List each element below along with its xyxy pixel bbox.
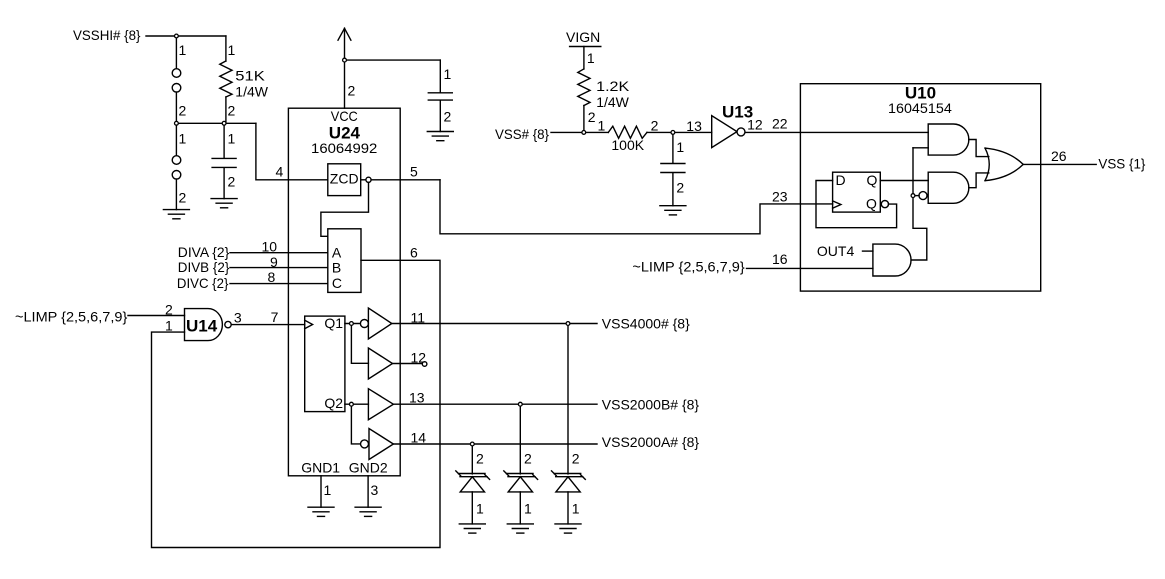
svg-text:1/4W: 1/4W bbox=[235, 84, 268, 100]
wire Q2 to buffer4 bbox=[351, 404, 360, 444]
junction at Q1 output bbox=[350, 322, 354, 326]
svg-text:VSS2000B# {8}: VSS2000B# {8} bbox=[602, 396, 700, 412]
wire J2 top lead bbox=[175, 123, 177, 155]
svg-text:OUT4: OUT4 bbox=[817, 243, 855, 259]
svg-text:Q: Q bbox=[867, 172, 878, 188]
ZCD block inside U24 bbox=[328, 164, 361, 196]
junction VSS# R2 bbox=[582, 131, 586, 135]
Q1Q2 clock triangle bbox=[305, 320, 313, 329]
junction pin13 zener2 bbox=[518, 402, 522, 406]
wire pin 14 net bbox=[393, 443, 597, 445]
svg-text:3: 3 bbox=[371, 482, 379, 498]
junction at Q2 output bbox=[350, 402, 354, 406]
svg-text:26: 26 bbox=[1051, 148, 1067, 164]
svg-text:VCC: VCC bbox=[331, 108, 358, 124]
wire ~LIMP to AND3 pin 16 bbox=[747, 267, 873, 269]
svg-text:2: 2 bbox=[228, 103, 236, 119]
and gate A1 top bbox=[928, 124, 969, 155]
junction at VCC arrow bbox=[343, 58, 347, 62]
DFF Qbar bubble bbox=[881, 201, 888, 208]
svg-text:1: 1 bbox=[228, 131, 236, 147]
svg-text:51K: 51K bbox=[235, 68, 265, 84]
wire pin 12 stub bbox=[393, 363, 423, 365]
svg-text:1: 1 bbox=[179, 131, 187, 147]
svg-text:1: 1 bbox=[572, 501, 580, 517]
svg-text:ZCD: ZCD bbox=[330, 171, 359, 187]
svg-text:A: A bbox=[332, 245, 342, 261]
svg-text:1.2K: 1.2K bbox=[596, 78, 630, 94]
wire DFF Q to AND2 bbox=[880, 180, 928, 182]
svg-text:1: 1 bbox=[524, 501, 532, 517]
connector J1 circle A bbox=[172, 69, 181, 78]
junction R3 C3 bbox=[671, 131, 675, 135]
IC U24 body bbox=[288, 108, 400, 476]
svg-text:1: 1 bbox=[324, 482, 332, 498]
svg-text:2: 2 bbox=[676, 180, 684, 196]
svg-text:9: 9 bbox=[270, 254, 278, 270]
junction node mid-left bbox=[175, 121, 179, 125]
svg-text:~LIMP {2,5,6,7,9}: ~LIMP {2,5,6,7,9} bbox=[15, 309, 128, 325]
wire U14 output to Q1 clock pin 7 bbox=[231, 324, 305, 326]
wire OUT4 branch vertical bbox=[911, 148, 927, 260]
ground below C3 bbox=[660, 206, 686, 215]
svg-text:U14: U14 bbox=[186, 317, 218, 336]
svg-text:1: 1 bbox=[179, 42, 187, 58]
zener diode D2 bbox=[504, 404, 538, 524]
svg-text:23: 23 bbox=[772, 189, 788, 205]
svg-text:4: 4 bbox=[276, 164, 284, 180]
wire ZCD feedback to divider block bbox=[321, 182, 369, 236]
svg-text:B: B bbox=[332, 260, 341, 276]
svg-text:2: 2 bbox=[165, 302, 173, 318]
svg-text:10: 10 bbox=[262, 238, 278, 254]
wire AND2 output to OR bbox=[969, 173, 989, 188]
capacitor C3 bbox=[661, 132, 685, 205]
buffer B3 triangle bbox=[368, 389, 393, 420]
and gate A2 middle bbox=[928, 172, 969, 203]
svg-text:13: 13 bbox=[686, 118, 702, 134]
wire AND2 bubble stub bbox=[913, 195, 919, 197]
svg-text:DIVB {2}: DIVB {2} bbox=[178, 259, 230, 275]
divider block ABC bbox=[328, 229, 361, 293]
svg-text:16045154: 16045154 bbox=[888, 100, 952, 116]
wire pin 11 net bbox=[392, 323, 597, 325]
connector J2 circle B bbox=[172, 171, 181, 180]
svg-text:VSS4000# {8}: VSS4000# {8} bbox=[602, 315, 690, 331]
connector J2 circle A bbox=[172, 156, 181, 165]
buffer B4 input bubble bbox=[361, 440, 369, 448]
wire J1 top lead bbox=[175, 36, 177, 69]
svg-text:2: 2 bbox=[588, 109, 596, 125]
svg-text:2: 2 bbox=[524, 451, 532, 467]
svg-text:1/4W: 1/4W bbox=[596, 94, 629, 110]
wire Q2 output bbox=[345, 403, 369, 405]
wire OUT4 label to AND3 bbox=[863, 250, 873, 252]
svg-text:Q1: Q1 bbox=[324, 315, 343, 331]
svg-text:2: 2 bbox=[444, 109, 452, 125]
wire J1 bottom lead bbox=[175, 92, 177, 123]
svg-text:1: 1 bbox=[587, 50, 595, 66]
svg-text:VSS# {8}: VSS# {8} bbox=[495, 126, 549, 142]
wire AND1 lower input stub bbox=[913, 147, 928, 149]
wire VSSHI# to junction and resistor R1 top bbox=[146, 35, 226, 37]
svg-text:16064992: 16064992 bbox=[311, 140, 378, 156]
svg-text:1: 1 bbox=[165, 318, 173, 334]
svg-text:2: 2 bbox=[348, 82, 356, 98]
svg-text:8: 8 bbox=[268, 269, 276, 285]
ground below C2 bbox=[427, 132, 453, 141]
svg-text:12: 12 bbox=[747, 117, 763, 133]
capacitor C1 bbox=[212, 123, 236, 198]
svg-text:12: 12 bbox=[411, 349, 427, 365]
resistor R2 1.2K bbox=[578, 47, 590, 133]
U13 output bubble bbox=[737, 128, 745, 136]
ground below D3 bbox=[555, 524, 581, 533]
pin 12 no-connect circle bbox=[422, 362, 427, 367]
power arrow VCC bbox=[338, 28, 351, 108]
wire junction row bbox=[176, 122, 256, 124]
svg-text:16: 16 bbox=[772, 251, 788, 267]
ground below GND2 bbox=[355, 507, 381, 516]
wire J2 bottom lead bbox=[175, 179, 177, 210]
wire DIVA pin 10 bbox=[230, 252, 328, 254]
AND2 input bubble bbox=[919, 192, 927, 200]
wire pin5 run to U10 pin 23 bbox=[440, 180, 801, 234]
svg-text:2: 2 bbox=[179, 103, 187, 119]
svg-text:1: 1 bbox=[476, 501, 484, 517]
svg-text:14: 14 bbox=[411, 430, 427, 446]
svg-text:VSS2000A# {8}: VSS2000A# {8} bbox=[602, 434, 700, 450]
ground below D2 bbox=[507, 524, 533, 533]
wire Q1 output bbox=[345, 323, 360, 325]
wire OR output pin 26 bbox=[1024, 163, 1097, 165]
junction pin11 zener3 bbox=[566, 322, 570, 326]
wire ~LIMP to U14 pin 2 bbox=[128, 315, 185, 317]
wire divider output pin 6 feedback loop bbox=[152, 260, 441, 547]
svg-text:2: 2 bbox=[572, 451, 580, 467]
wire ZCD output pin 5 bbox=[371, 179, 440, 181]
capacitor C2 bbox=[428, 60, 452, 131]
wire VSS# to R3 bbox=[551, 131, 608, 133]
DFF clock triangle bbox=[833, 201, 841, 208]
svg-text:D: D bbox=[836, 172, 846, 188]
buffer B2 triangle bbox=[368, 348, 392, 379]
svg-text:1: 1 bbox=[228, 42, 236, 58]
svg-text:DIVA {2}: DIVA {2} bbox=[178, 244, 230, 260]
svg-text:3: 3 bbox=[234, 310, 242, 326]
inverter U13 triangle bbox=[712, 116, 737, 148]
ground below J2 bbox=[163, 210, 189, 219]
wire DIVC pin 8 bbox=[230, 283, 328, 285]
buffer B1 triangle bbox=[368, 308, 391, 339]
wire U13 output to U10 AND1 input pin 22 bbox=[745, 131, 928, 133]
ZCD output bubble bbox=[361, 179, 366, 181]
junction on OUT4 branch bbox=[911, 194, 915, 198]
svg-text:6: 6 bbox=[410, 245, 418, 261]
ground below D1 bbox=[459, 524, 485, 533]
svg-text:100K: 100K bbox=[611, 137, 644, 153]
wire Q1 to buffer2 bbox=[351, 324, 368, 364]
svg-text:2: 2 bbox=[228, 174, 236, 190]
junction on VSSHI# net bbox=[175, 34, 179, 38]
ground below GND1 bbox=[308, 507, 334, 516]
svg-text:C: C bbox=[332, 275, 342, 291]
svg-text:2: 2 bbox=[179, 190, 187, 206]
svg-text:VSS {1}: VSS {1} bbox=[1098, 156, 1145, 172]
svg-text:1: 1 bbox=[444, 66, 452, 82]
wire DIVB pin 9 bbox=[230, 267, 328, 269]
buffer B4 triangle bbox=[369, 429, 393, 460]
wire pin 13 net bbox=[393, 403, 597, 405]
resistor R3 100K bbox=[608, 126, 647, 138]
svg-text:VSSHI# {8}: VSSHI# {8} bbox=[73, 27, 141, 43]
junction pin14 zener1 bbox=[470, 442, 474, 446]
svg-text:~LIMP {2,5,6,7,9}: ~LIMP {2,5,6,7,9} bbox=[632, 259, 745, 275]
wire AND1 output to OR bbox=[969, 140, 989, 157]
svg-text:Q2: Q2 bbox=[324, 395, 343, 411]
zener diode D1 bbox=[456, 444, 490, 524]
wire junction row to ZCD pin 4 bbox=[256, 123, 328, 180]
svg-text:22: 22 bbox=[772, 116, 788, 132]
connector J1 circle B bbox=[172, 84, 181, 93]
svg-text:1: 1 bbox=[676, 139, 684, 155]
wire clock pin 23 inside U10 bbox=[801, 203, 833, 205]
wire R3 to U13 input bbox=[647, 131, 712, 133]
flip-flop block Q1 Q2 bbox=[305, 316, 345, 412]
svg-text:GND2: GND2 bbox=[349, 460, 388, 476]
svg-text:7: 7 bbox=[271, 309, 279, 325]
svg-text:5: 5 bbox=[410, 164, 418, 180]
svg-text:2: 2 bbox=[651, 118, 659, 134]
svg-text:11: 11 bbox=[411, 310, 426, 326]
D flip-flop block in U10 bbox=[833, 172, 881, 212]
VIGN rail bar bbox=[570, 46, 601, 48]
ground below C1 bbox=[211, 199, 237, 208]
wire VCC to C2 bbox=[345, 59, 441, 61]
svg-text:2: 2 bbox=[476, 451, 484, 467]
buffer B1 input bubble bbox=[360, 320, 368, 328]
svg-text:13: 13 bbox=[409, 390, 425, 406]
and gate A3 OUT4 bbox=[873, 244, 911, 276]
U14 output bubble bbox=[225, 321, 231, 327]
wire DFF Qbar to D feedback bbox=[816, 181, 897, 228]
or gate O1 bbox=[985, 148, 1023, 181]
zener diode D3 bbox=[552, 324, 586, 524]
svg-text:GND1: GND1 bbox=[301, 460, 340, 476]
nand gate U14 bbox=[185, 309, 223, 341]
svg-text:Q: Q bbox=[866, 196, 877, 212]
svg-text:VIGN: VIGN bbox=[566, 29, 600, 45]
IC U10 body bbox=[800, 84, 1040, 291]
wire GND2 pin bbox=[367, 476, 369, 507]
svg-text:DIVC {2}: DIVC {2} bbox=[177, 275, 229, 291]
resistor R1 51K bbox=[220, 36, 232, 123]
svg-text:1: 1 bbox=[598, 117, 606, 133]
wire GND1 pin bbox=[320, 476, 322, 507]
junction at resistor bottom bbox=[222, 121, 226, 125]
